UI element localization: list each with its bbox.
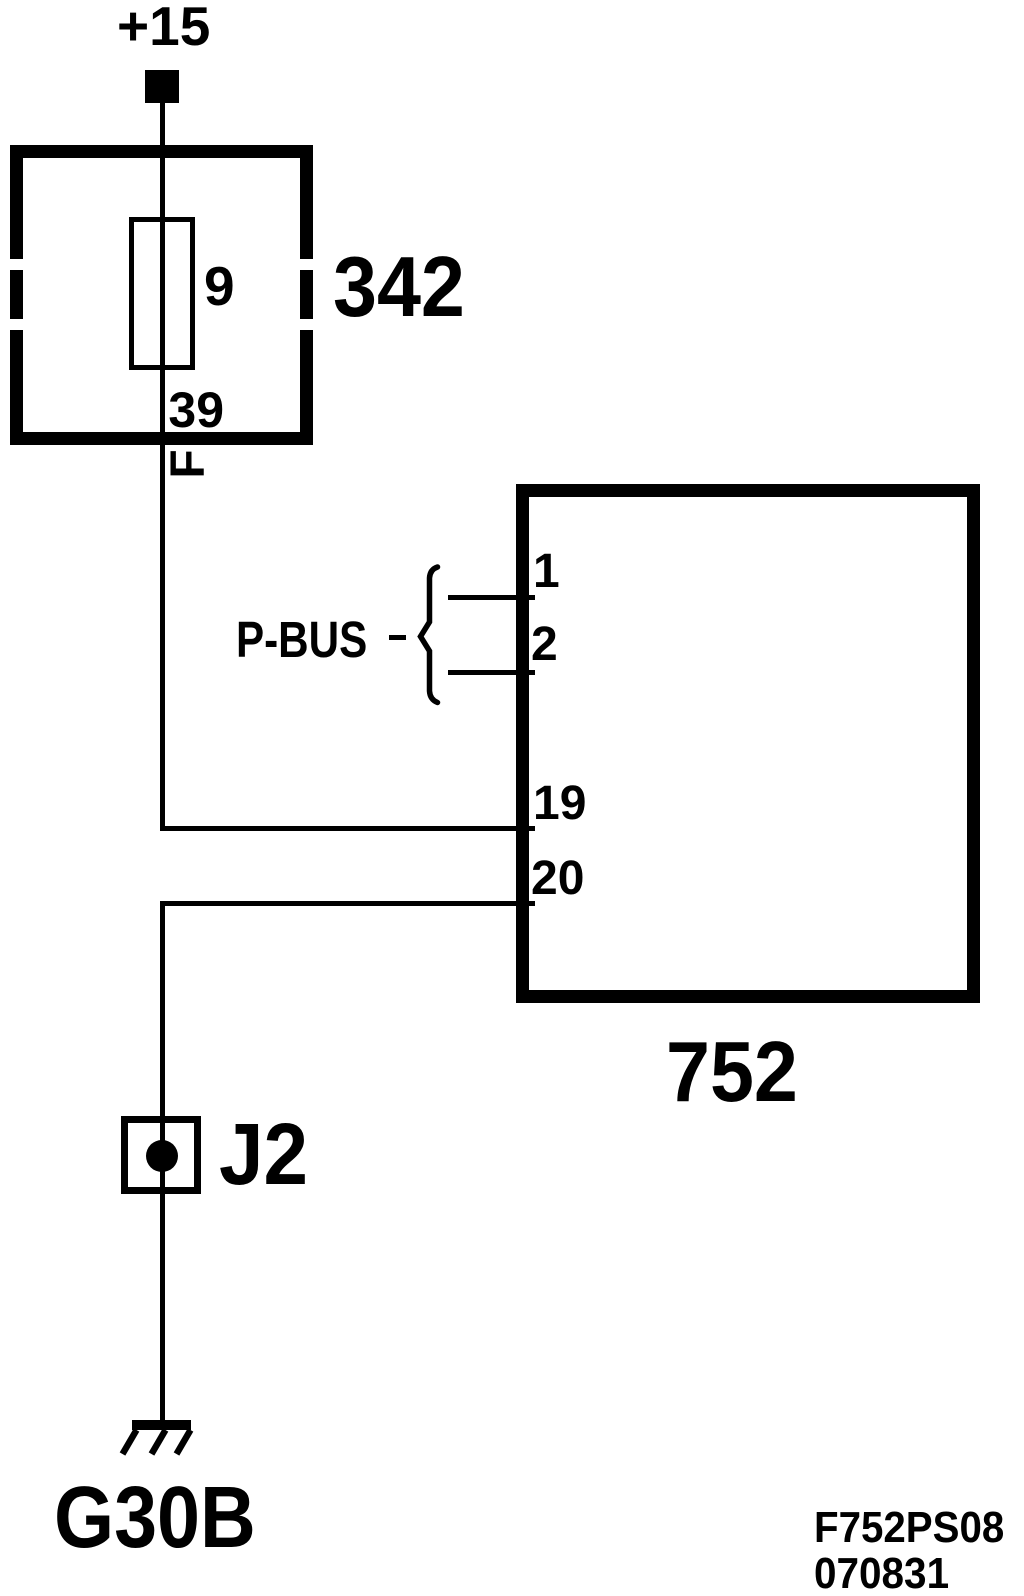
- fuse 9 body rectangle: [129, 217, 195, 370]
- component 342 dashed frame: left edge segment 2: [10, 270, 23, 320]
- pin 1 label: [533, 548, 560, 596]
- pin 19 label: [533, 780, 586, 828]
- junction J2 box: [121, 1116, 201, 1194]
- component 342 dashed frame: right edge segment 3: [300, 330, 313, 446]
- component 342 dashed frame: bottom edge: [10, 432, 313, 445]
- component 342 dashed frame: top edge: [10, 145, 313, 158]
- node +15 label: [117, 0, 210, 54]
- component reference label 752: [666, 1030, 798, 1115]
- P-BUS brace: [410, 558, 450, 710]
- junction J2 label: [219, 1111, 308, 1198]
- wire: P-BUS stub to pin 2: [448, 670, 535, 675]
- ground name label G30B: [54, 1474, 256, 1561]
- control module 752 box: [516, 484, 980, 1003]
- drawing date 070831: [814, 1552, 949, 1596]
- component 342 dashed frame: left edge segment 1: [10, 145, 23, 259]
- wire: vertical from pin 20 down through J2 to ground: [160, 901, 165, 1425]
- junction J2 dot: [146, 1140, 178, 1172]
- component 342 dashed frame: right edge segment 2: [300, 270, 313, 320]
- wire: vertical feed from +15 terminal through fuse down to pin 19 elbow: [160, 103, 165, 831]
- ground symbol G30B: [110, 1410, 210, 1470]
- pin 2 label: [531, 621, 558, 669]
- dash between P-BUS label and brace: [389, 635, 406, 640]
- component 342 dashed frame: left edge segment 3: [10, 330, 23, 446]
- wire: P-BUS stub to pin 1: [448, 595, 535, 600]
- component 342 dashed frame: right edge segment 1: [300, 145, 313, 259]
- wire: pin 20 horizontal: [160, 901, 536, 906]
- pin 20 label: [531, 855, 584, 903]
- wire designation label F (rotated): [164, 449, 212, 478]
- P-BUS net label: [236, 614, 367, 665]
- drawing number F752PS08: [814, 1506, 1004, 1550]
- wire: pin 19 horizontal: [160, 826, 536, 831]
- pin 39 label: [168, 385, 224, 435]
- fuse value label 9: [204, 259, 235, 314]
- component reference label 342: [333, 245, 465, 330]
- +15 supply terminal square: [145, 70, 179, 103]
